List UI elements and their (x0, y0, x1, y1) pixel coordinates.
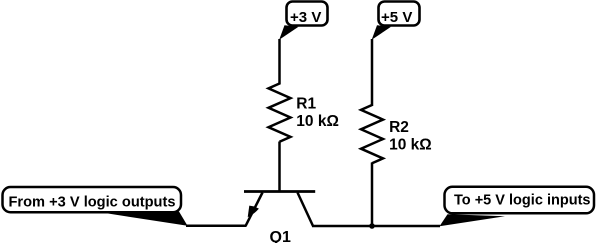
svg-text:To +5 V logic inputs: To +5 V logic inputs (454, 192, 591, 209)
resistor R2 (361, 105, 383, 163)
svg-text:R1: R1 (296, 96, 316, 113)
junction node: R2 / collector / output (369, 223, 375, 229)
callout tail from output label to wire (440, 214, 506, 226)
wire: Q1 collector to output label (bottom right) (312, 225, 440, 228)
transistor Q1 emitter (246, 193, 263, 226)
power flag +5 V (379, 2, 420, 27)
transistor Q1 emitter arrow (248, 206, 259, 218)
output label "To +5 V logic inputs" (445, 187, 595, 214)
power flag +3 V (287, 2, 328, 27)
wire: +3 V flag to R1 top (278, 39, 281, 85)
resistor R1 (269, 84, 291, 142)
input label "From +3 V logic outputs" (3, 187, 182, 212)
svg-text:Q1: Q1 (270, 229, 291, 243)
transistor Q1 base bar (244, 190, 315, 193)
svg-text:From +3 V logic outputs: From +3 V logic outputs (9, 193, 176, 210)
callout tail from +3 V flag to wire (279, 25, 298, 40)
wire: input label to Q1 emitter (bottom left) (186, 225, 247, 228)
svg-text:R2: R2 (389, 119, 409, 136)
svg-text:10 kΩ: 10 kΩ (389, 137, 432, 154)
svg-text:+5 V: +5 V (381, 9, 412, 26)
wire: R2 bottom to output node (371, 163, 374, 227)
svg-text:10 kΩ: 10 kΩ (296, 113, 339, 130)
callout tail from +5 V flag to wire (372, 25, 391, 40)
svg-text:+3 V: +3 V (290, 9, 321, 26)
wire: R1 bottom to Q1 base (278, 142, 281, 191)
callout tail from input label to wire (108, 212, 188, 226)
transistor Q1 collector (298, 193, 314, 227)
wire: +5 V flag to R2 top (371, 39, 374, 106)
